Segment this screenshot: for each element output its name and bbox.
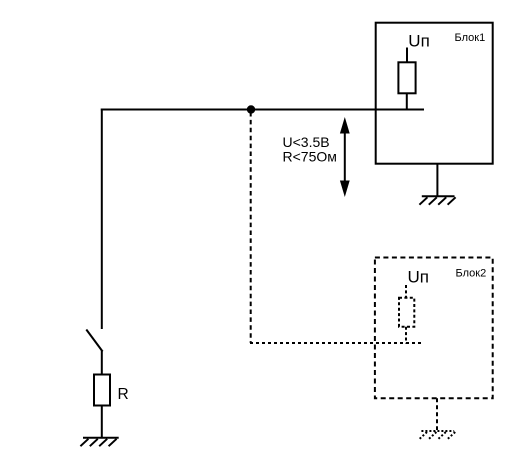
wire: dashed Блок2 bottom to ground bbox=[436, 398, 438, 430]
switch S1 (open blade) bbox=[86, 330, 102, 352]
wire: dashed vertical from junction to Блок2 net bbox=[250, 112, 252, 343]
block U2 Блок2 outline (dashed) bbox=[375, 258, 493, 399]
block U1 Блок1 outline bbox=[376, 23, 493, 164]
svg-text:R<75Ом: R<75Ом bbox=[283, 149, 337, 165]
svg-text:Блок2: Блок2 bbox=[456, 268, 487, 280]
wire: dashed horizontal into Блок2 bbox=[250, 342, 423, 344]
wire: top horizontal net from left branch into Блок1 bbox=[101, 109, 424, 111]
svg-text:R: R bbox=[118, 386, 129, 403]
wire: Блок1 bottom to ground bbox=[436, 164, 438, 197]
wire: resistor R to ground bbox=[101, 406, 103, 439]
ground (Блок2 chassis, dashed) bbox=[419, 431, 455, 439]
wire: dashed Uп lead to resistor (Блок2) bbox=[405, 285, 407, 299]
wire: left vertical drop to switch bbox=[101, 109, 103, 330]
svg-text:Uп: Uп bbox=[408, 267, 429, 286]
resistor R bbox=[94, 375, 110, 406]
annotation: double-headed arrow (voltage measuring span) bbox=[340, 117, 350, 197]
wire: dashed resistor lead down to net (Блок2) bbox=[405, 327, 407, 344]
svg-text:Блок1: Блок1 bbox=[455, 32, 486, 44]
ground (Блок1 chassis) bbox=[419, 196, 455, 204]
wire: Uп lead to resistor (Блок1) bbox=[406, 48, 408, 64]
ground (left, chassis) bbox=[80, 438, 118, 446]
node: junction dot on top net bbox=[247, 105, 255, 113]
resistor (pull-up inside Блок2, dashed) bbox=[399, 298, 414, 327]
svg-text:Uп: Uп bbox=[408, 32, 429, 51]
resistor (pull-up inside Блок1) bbox=[398, 62, 415, 93]
wire: resistor lead down to net (Блок1) bbox=[406, 93, 408, 110]
wire: switch to resistor R bbox=[101, 351, 103, 376]
